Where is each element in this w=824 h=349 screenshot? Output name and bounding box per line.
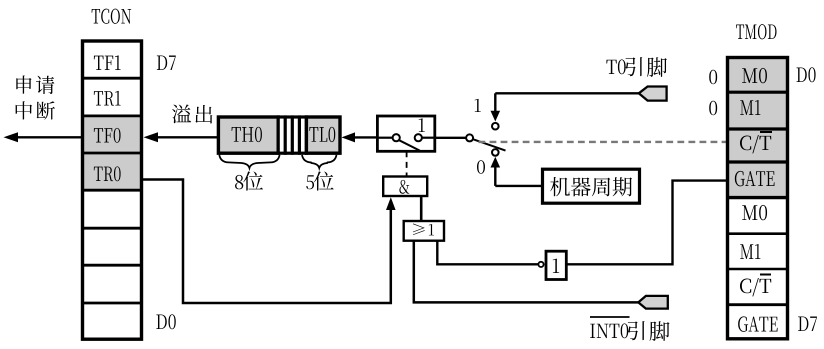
selector arm	[473, 139, 506, 150]
wire TL0 input arrow	[352, 136, 377, 138]
bit value 0 (M0)	[709, 70, 717, 85]
cell M1 label (timer1)	[740, 244, 753, 259]
switch S1 label 1	[419, 118, 425, 132]
bit label D0	[156, 315, 166, 329]
AND gate box	[383, 177, 427, 197]
wire machine-cycle feed arrow	[494, 167, 496, 186]
AND gate label &	[399, 180, 409, 194]
wire T0 feed arrow	[494, 93, 496, 112]
cell GATE label (timer0)	[735, 171, 745, 186]
OR gate box	[404, 221, 444, 241]
wire GATE to inverter	[566, 181, 727, 265]
label 8位	[235, 175, 243, 189]
bit label D7	[157, 56, 167, 70]
cell TF0 label	[94, 128, 103, 142]
bit label D0	[797, 68, 807, 82]
block 机器周期	[543, 169, 640, 203]
wire overflow arrow TH0 to TF0	[155, 136, 218, 138]
wire OR gate to inverter	[437, 241, 538, 265]
pin INT0	[638, 296, 668, 309]
wire machine-cycle to selector	[495, 185, 542, 187]
pin T0	[639, 87, 667, 101]
selector pole contact	[466, 134, 473, 141]
register TL0	[306, 117, 340, 153]
switch S1 contacts	[377, 137, 392, 139]
label INT0引脚	[590, 316, 630, 318]
inverter label 1	[553, 259, 559, 273]
inverter bubble	[538, 262, 543, 267]
wire INT0 to OR gate	[414, 241, 639, 303]
cell TF0 fill	[83, 116, 142, 153]
inverter box	[546, 251, 566, 279]
dashed wire selector to TMOD C/T	[479, 141, 728, 143]
label TH0	[232, 127, 241, 142]
label 1 (counter mode)	[475, 99, 481, 112]
cell TR0 fill	[83, 153, 142, 190]
label 5位	[306, 175, 314, 189]
cell M0 label (timer1)	[742, 205, 757, 220]
TMOD gray cells fill	[728, 58, 788, 198]
label 0 (timer mode)	[477, 160, 485, 174]
cell C/T label (timer0)	[740, 135, 751, 150]
cell M0 label (timer0)	[742, 68, 757, 83]
label TL0	[309, 127, 318, 142]
brace 5-bit	[302, 155, 337, 168]
wire T0 pin to selector	[495, 92, 639, 94]
bit label D7	[798, 317, 808, 331]
cell GATE label (timer1)	[738, 316, 748, 331]
cell TR0 label	[94, 167, 103, 181]
cell M1 label (timer0)	[740, 100, 753, 115]
label 溢出	[172, 104, 191, 123]
register TH0	[218, 117, 278, 153]
wire AND-OR connector	[420, 196, 423, 221]
wire TR0 to AND gate	[142, 180, 391, 304]
stripe divider bars	[278, 117, 306, 153]
bit value 0 (M1)	[709, 101, 717, 116]
brace 8-bit	[219, 155, 279, 168]
wire S1 to selector	[435, 137, 466, 139]
register TMOD box	[728, 58, 788, 339]
label 申请中断	[16, 75, 31, 93]
register TMOD title	[736, 25, 744, 39]
wire interrupt-request arrow	[17, 136, 83, 138]
switch S1 box	[377, 116, 434, 151]
label 机器周期	[550, 177, 570, 196]
label T0引脚	[606, 60, 616, 74]
selector contact 0 (timer)	[492, 149, 499, 156]
cell TF1 label	[94, 56, 104, 70]
register TCON title	[92, 9, 101, 23]
cell C/T label (timer1)	[740, 278, 751, 293]
switch S1 arm	[399, 140, 420, 150]
OR gate label ≥1	[413, 224, 425, 236]
dashed control wire AND to S1	[406, 151, 408, 176]
cell TR1 label	[94, 91, 103, 105]
register TCON box	[83, 41, 142, 339]
selector contact 1 (counter)	[492, 123, 499, 130]
